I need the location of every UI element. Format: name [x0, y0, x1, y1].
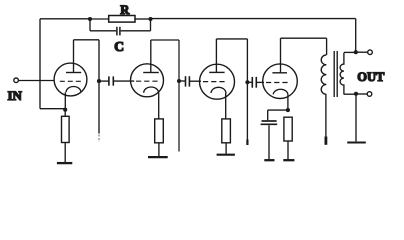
- capacitor C left plate: [116, 27, 118, 36]
- tube V1 envelope: [54, 63, 87, 96]
- tube V4 plate lead: [280, 38, 282, 73]
- wire to bypass cap: [268, 109, 288, 111]
- inductor transformer secondary: [340, 53, 344, 95]
- wire primary bottom lead: [325, 94, 327, 136]
- tube V2 grid dashes: [136, 80, 158, 82]
- wire feedback to cathode junction: [40, 108, 65, 110]
- tube V1 plate bar: [66, 72, 81, 74]
- wire to output terminal top: [356, 51, 368, 53]
- ground bar V4 resistor: [283, 159, 294, 161]
- node cathode junction V4: [286, 108, 290, 112]
- resistor cathode V4: [284, 117, 292, 141]
- tube V3 plate lead: [215, 39, 217, 73]
- wire top rail right long segment: [151, 18, 356, 20]
- resistor R1 body: [109, 16, 135, 23]
- wire rail to resistor R: [90, 18, 109, 20]
- output terminal bottom: [367, 92, 372, 97]
- wire V1 plate top horizontal: [74, 39, 100, 41]
- transformer core line left: [333, 51, 335, 97]
- wire V3 drop tail blob: [246, 140, 248, 146]
- wire C branch left horizontal: [90, 30, 116, 32]
- tube V3 cathode arc: [211, 87, 226, 93]
- tube V2 cathode arc: [144, 87, 159, 93]
- wire V4 resistor to ground: [287, 141, 289, 159]
- tube V4 grid dashes: [266, 82, 288, 84]
- svg-text:R: R: [120, 3, 130, 17]
- node secondary bottom junction: [354, 92, 358, 96]
- wire V2 plate top horizontal: [151, 39, 179, 41]
- tube V4 cathode lead: [287, 94, 289, 110]
- wire cap1 to tube V2 grid: [114, 80, 135, 82]
- resistor cathode V3: [222, 119, 231, 143]
- capacitor C right plate: [119, 27, 121, 36]
- wire resistor R to right node: [135, 18, 151, 20]
- wire V4 plate drop to transformer: [326, 38, 328, 55]
- tube V2 plate bar: [143, 72, 159, 74]
- node coupling junction 3: [245, 80, 249, 84]
- resistor cathode V1: [62, 116, 70, 142]
- capacitor bypass top plate: [262, 120, 277, 122]
- capacitor coupling 1 right plate: [112, 76, 114, 85]
- wire left feedback rail vertical: [39, 19, 41, 109]
- svg-text:OUT: OUT: [357, 70, 385, 84]
- node junction left of R: [88, 17, 92, 21]
- wire C branch right horizontal: [121, 30, 151, 32]
- capacitor coupling 2 left plate: [185, 76, 187, 86]
- wire V1 resistor to ground: [64, 143, 66, 163]
- wire input to tube V1 grid: [18, 80, 54, 82]
- wire secondary top lead: [344, 51, 356, 53]
- wire to coupling cap 1: [99, 80, 109, 82]
- ground bar V1: [57, 162, 72, 164]
- wire top rail left segment: [40, 18, 90, 20]
- wire V2 resistor to ground: [158, 143, 160, 157]
- capacitor bypass bottom plate: [261, 123, 278, 125]
- wire cap2 to tube V3 grid: [190, 80, 201, 82]
- wire V1 junction to resistor: [64, 110, 66, 117]
- wire C branch left drop: [89, 19, 91, 31]
- tube V1 plate lead: [73, 40, 75, 73]
- capacitor coupling 2 right plate: [188, 76, 190, 86]
- node junction right of R: [148, 17, 152, 21]
- wire V3 resistor to ground: [225, 143, 227, 154]
- wire bypass cap bottom lead: [268, 125, 270, 159]
- tube V2 cathode lead: [158, 93, 160, 119]
- wire faded grid-leak tail stage2: [98, 135, 100, 143]
- input terminal IN: [14, 78, 19, 83]
- node coupling junction 2: [177, 79, 181, 83]
- wire to coupling cap 2: [179, 80, 185, 82]
- wire to output terminal bottom: [356, 93, 367, 95]
- tube V3 cathode lead: [225, 93, 227, 119]
- capacitor coupling 3 left plate: [251, 77, 253, 88]
- wire bypass cap top lead: [267, 110, 269, 120]
- wire to coupling cap 3: [247, 81, 252, 83]
- tube V2 plate lead: [150, 40, 152, 73]
- wire secondary bottom to ground: [355, 94, 357, 142]
- wire secondary bottom lead: [344, 93, 356, 95]
- tube V1 cathode arc: [66, 86, 81, 92]
- tube V1 cathode lead: [64, 92, 66, 109]
- ground bar secondary: [347, 141, 366, 143]
- wire V1 plate drop to coupling node: [98, 40, 100, 134]
- node cathode junction V1: [63, 108, 67, 112]
- capacitor coupling 1 left plate: [108, 76, 110, 85]
- node coupling junction 1: [97, 79, 101, 83]
- output terminal top: [368, 50, 373, 55]
- tube V4 envelope: [263, 64, 298, 99]
- tube V1 grid dashes: [60, 80, 81, 82]
- svg-text:C: C: [114, 39, 124, 54]
- ground bar V3: [217, 154, 235, 156]
- wire rail drop to output terminal: [355, 19, 357, 53]
- ground bar V2: [148, 156, 168, 158]
- wire V3 plate drop: [246, 39, 248, 140]
- tube V4 plate bar: [272, 72, 287, 74]
- resistor cathode V2: [155, 119, 164, 143]
- inductor transformer primary: [321, 55, 326, 94]
- ground bar bypass cap: [264, 159, 274, 161]
- svg-text:IN: IN: [8, 88, 23, 103]
- wire cap3 to tube V4 grid: [257, 81, 264, 83]
- tube V4 cathode arc: [273, 89, 288, 94]
- tube V3 envelope: [200, 64, 235, 99]
- tube V2 envelope: [131, 64, 164, 97]
- wire V3 plate top horizontal: [216, 38, 247, 40]
- node secondary top junction: [354, 50, 358, 54]
- tube V3 grid dashes: [203, 81, 225, 83]
- wire primary lead end blob: [324, 137, 327, 145]
- tube V3 plate bar: [209, 71, 224, 73]
- transformer core line right: [336, 51, 338, 97]
- wire C branch right rise: [150, 19, 152, 31]
- wire V4 plate top horizontal: [281, 37, 327, 39]
- capacitor coupling 3 right plate: [255, 77, 257, 88]
- wire V2 plate drop: [178, 40, 180, 152]
